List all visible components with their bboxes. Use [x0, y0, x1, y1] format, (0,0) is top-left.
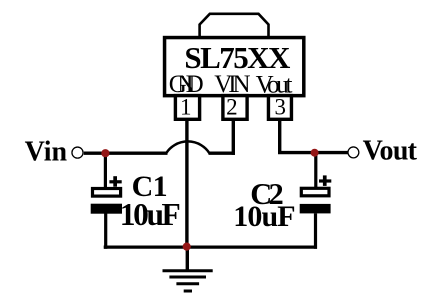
capacitor C2 bottom lead [314, 213, 317, 248]
capacitor C2 plus sign [319, 179, 331, 182]
pin 3 box [268, 96, 291, 120]
node junction dot Vin [101, 149, 109, 157]
ground stub [186, 247, 189, 271]
capacitor C2 top lead [314, 153, 317, 189]
regulator U1 SL75XX package body [165, 38, 304, 96]
wire pin3 Vout vertical [278, 120, 281, 153]
svg-text:10uF: 10uF [233, 200, 295, 233]
capacitor C1 negative plate [91, 204, 122, 214]
capacitor C2 positive plate [301, 188, 329, 196]
pin 2 box [223, 96, 247, 120]
wire bottom rail [104, 246, 317, 249]
wire Vout horizontal [278, 151, 349, 154]
wire hop to pin2 horizontal [209, 151, 236, 154]
regulator U1 package tab [200, 14, 269, 38]
svg-text:Vin: Vin [25, 136, 68, 167]
terminal Vin [72, 147, 83, 158]
capacitor C1 plus sign [109, 180, 121, 183]
wire hop arc over GND wire [166, 141, 210, 153]
capacitor C1 top lead [104, 153, 107, 188]
ground bar 1 [163, 269, 213, 272]
capacitor C1 positive plate [93, 189, 121, 197]
pin 1 box [175, 96, 199, 120]
wire Vin horizontal [84, 151, 168, 154]
node junction dot Vout [311, 149, 319, 157]
svg-text:Vout: Vout [363, 135, 418, 166]
ground bar 4 [184, 290, 192, 293]
capacitor C2 negative plate [300, 204, 331, 214]
svg-text:2: 2 [226, 95, 238, 120]
svg-text:3: 3 [275, 95, 287, 120]
capacitor C1 bottom lead [104, 214, 107, 249]
svg-text:1: 1 [180, 95, 192, 120]
node junction dot ground [183, 243, 191, 251]
terminal Vout [348, 147, 359, 158]
wire pin1 GND vertical [185, 120, 188, 249]
svg-text:10uF: 10uF [120, 197, 181, 232]
ground bar 2 [169, 276, 206, 279]
ground bar 3 [176, 282, 199, 285]
svg-text:SL75XX: SL75XX [184, 40, 291, 75]
wire pin2 VIN vertical [232, 120, 235, 155]
